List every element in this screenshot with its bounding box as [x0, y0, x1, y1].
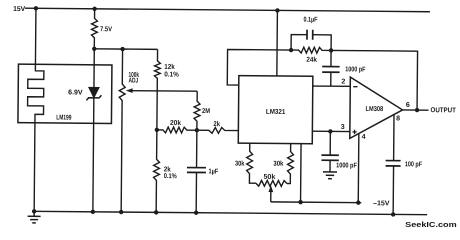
capacitor C1 1uF	[196, 130, 198, 167]
svg-text:50k: 50k	[263, 174, 275, 181]
capacitor C2 0.1uF	[291, 30, 331, 51]
svg-text:2k: 2k	[213, 121, 220, 128]
svg-text:LM199: LM199	[56, 114, 71, 121]
resistor R10 30k right	[287, 144, 294, 184]
minus sign of LM308	[353, 86, 357, 88]
capacitor C5 100 pF	[385, 161, 400, 215]
capacitor C3 1000 pF	[322, 50, 340, 86]
svg-text:8: 8	[396, 115, 400, 122]
svg-text:0.1%: 0.1%	[164, 71, 179, 78]
wiper arrow of 50k pot	[268, 185, 273, 192]
wire LM308 output	[403, 109, 429, 111]
ground symbol	[28, 211, 41, 223]
svg-text:7.5V: 7.5V	[100, 26, 112, 33]
capacitor C4 1000 pF	[321, 131, 339, 172]
wire 15V to LM321 V+	[276, 10, 279, 75]
svg-text:6: 6	[406, 102, 410, 109]
wire LM321 V- to -15V rail	[300, 144, 303, 202]
svg-text:15V: 15V	[13, 6, 25, 13]
wire LM321 to LM308 pin 3	[312, 130, 349, 132]
svg-text:1µF: 1µF	[208, 168, 218, 175]
svg-text:LM308: LM308	[366, 106, 384, 113]
svg-text:12k: 12k	[164, 64, 175, 71]
potentiometer R11 50k	[256, 180, 287, 186]
heater element of LM199 from 15V to ground	[27, 8, 45, 211]
svg-text:3: 3	[341, 124, 345, 131]
wire +15V top rail	[25, 8, 430, 12]
wire 100k wiper to 2M	[131, 90, 197, 93]
wire ground rail	[32, 211, 427, 214]
svg-text:ADJ: ADJ	[128, 78, 138, 85]
plus sign of LM308	[352, 130, 356, 134]
resistor R2 12k 0.1%	[154, 49, 161, 130]
svg-text:30k: 30k	[235, 161, 245, 168]
svg-text:2: 2	[341, 78, 345, 85]
svg-text:0.1%: 0.1%	[164, 173, 178, 180]
op-amp U3 LM308 triangle	[350, 77, 403, 139]
wire feedback to output	[331, 50, 418, 110]
svg-text:0.1µF: 0.1µF	[304, 17, 319, 24]
ground symbol at C4	[323, 172, 337, 179]
potentiometer R4 100k ADJ	[118, 49, 125, 212]
svg-text:6.9V: 6.9V	[68, 89, 83, 96]
svg-text:LM321: LM321	[266, 109, 286, 116]
zener diode D1 6.9V	[86, 87, 101, 100]
wire LM308 pin 4 to -15V	[357, 134, 360, 203]
svg-text:30k: 30k	[273, 161, 283, 168]
wire zener anode to ground	[92, 98, 95, 212]
svg-text:–15V: –15V	[373, 200, 390, 207]
svg-text:SeekIC.com: SeekIC.com	[405, 222, 457, 229]
wire zener cathode	[93, 49, 95, 87]
svg-text:1000 pF: 1000 pF	[345, 66, 366, 73]
wire LM308 pin 8 to C5	[393, 115, 395, 161]
svg-text:2M: 2M	[202, 108, 210, 115]
resistor R7 2k	[197, 127, 239, 133]
svg-text:24k: 24k	[306, 57, 317, 64]
resistor R3 2k 0.1%	[153, 130, 160, 213]
wire reference node	[94, 48, 157, 51]
op-amp U2 LM321 box	[238, 76, 313, 144]
resistor R8 24k	[291, 47, 331, 53]
resistor R1 7.5V dropping	[91, 9, 97, 49]
resistor R6 20k	[157, 127, 197, 133]
wiper arrow of 100k pot	[126, 88, 133, 93]
svg-text:100 pF: 100 pF	[405, 161, 423, 168]
svg-text:1000 pF: 1000 pF	[336, 162, 357, 169]
svg-text:4: 4	[362, 134, 366, 141]
svg-text:OUTPUT: OUTPUT	[431, 107, 457, 114]
reference U1 LM199 box	[18, 64, 112, 123]
svg-text:20k: 20k	[170, 120, 181, 127]
wire -15V rail	[271, 201, 361, 204]
resistor R9 30k left	[247, 143, 257, 183]
junction dots	[34, 6, 38, 10]
resistor R5 2M	[194, 91, 200, 130]
wire LM321 output to LM308 pin 2	[313, 85, 350, 87]
wire 50k wiper to -15V rail	[270, 191, 272, 202]
wire feedback to LM321 input	[227, 49, 291, 85]
